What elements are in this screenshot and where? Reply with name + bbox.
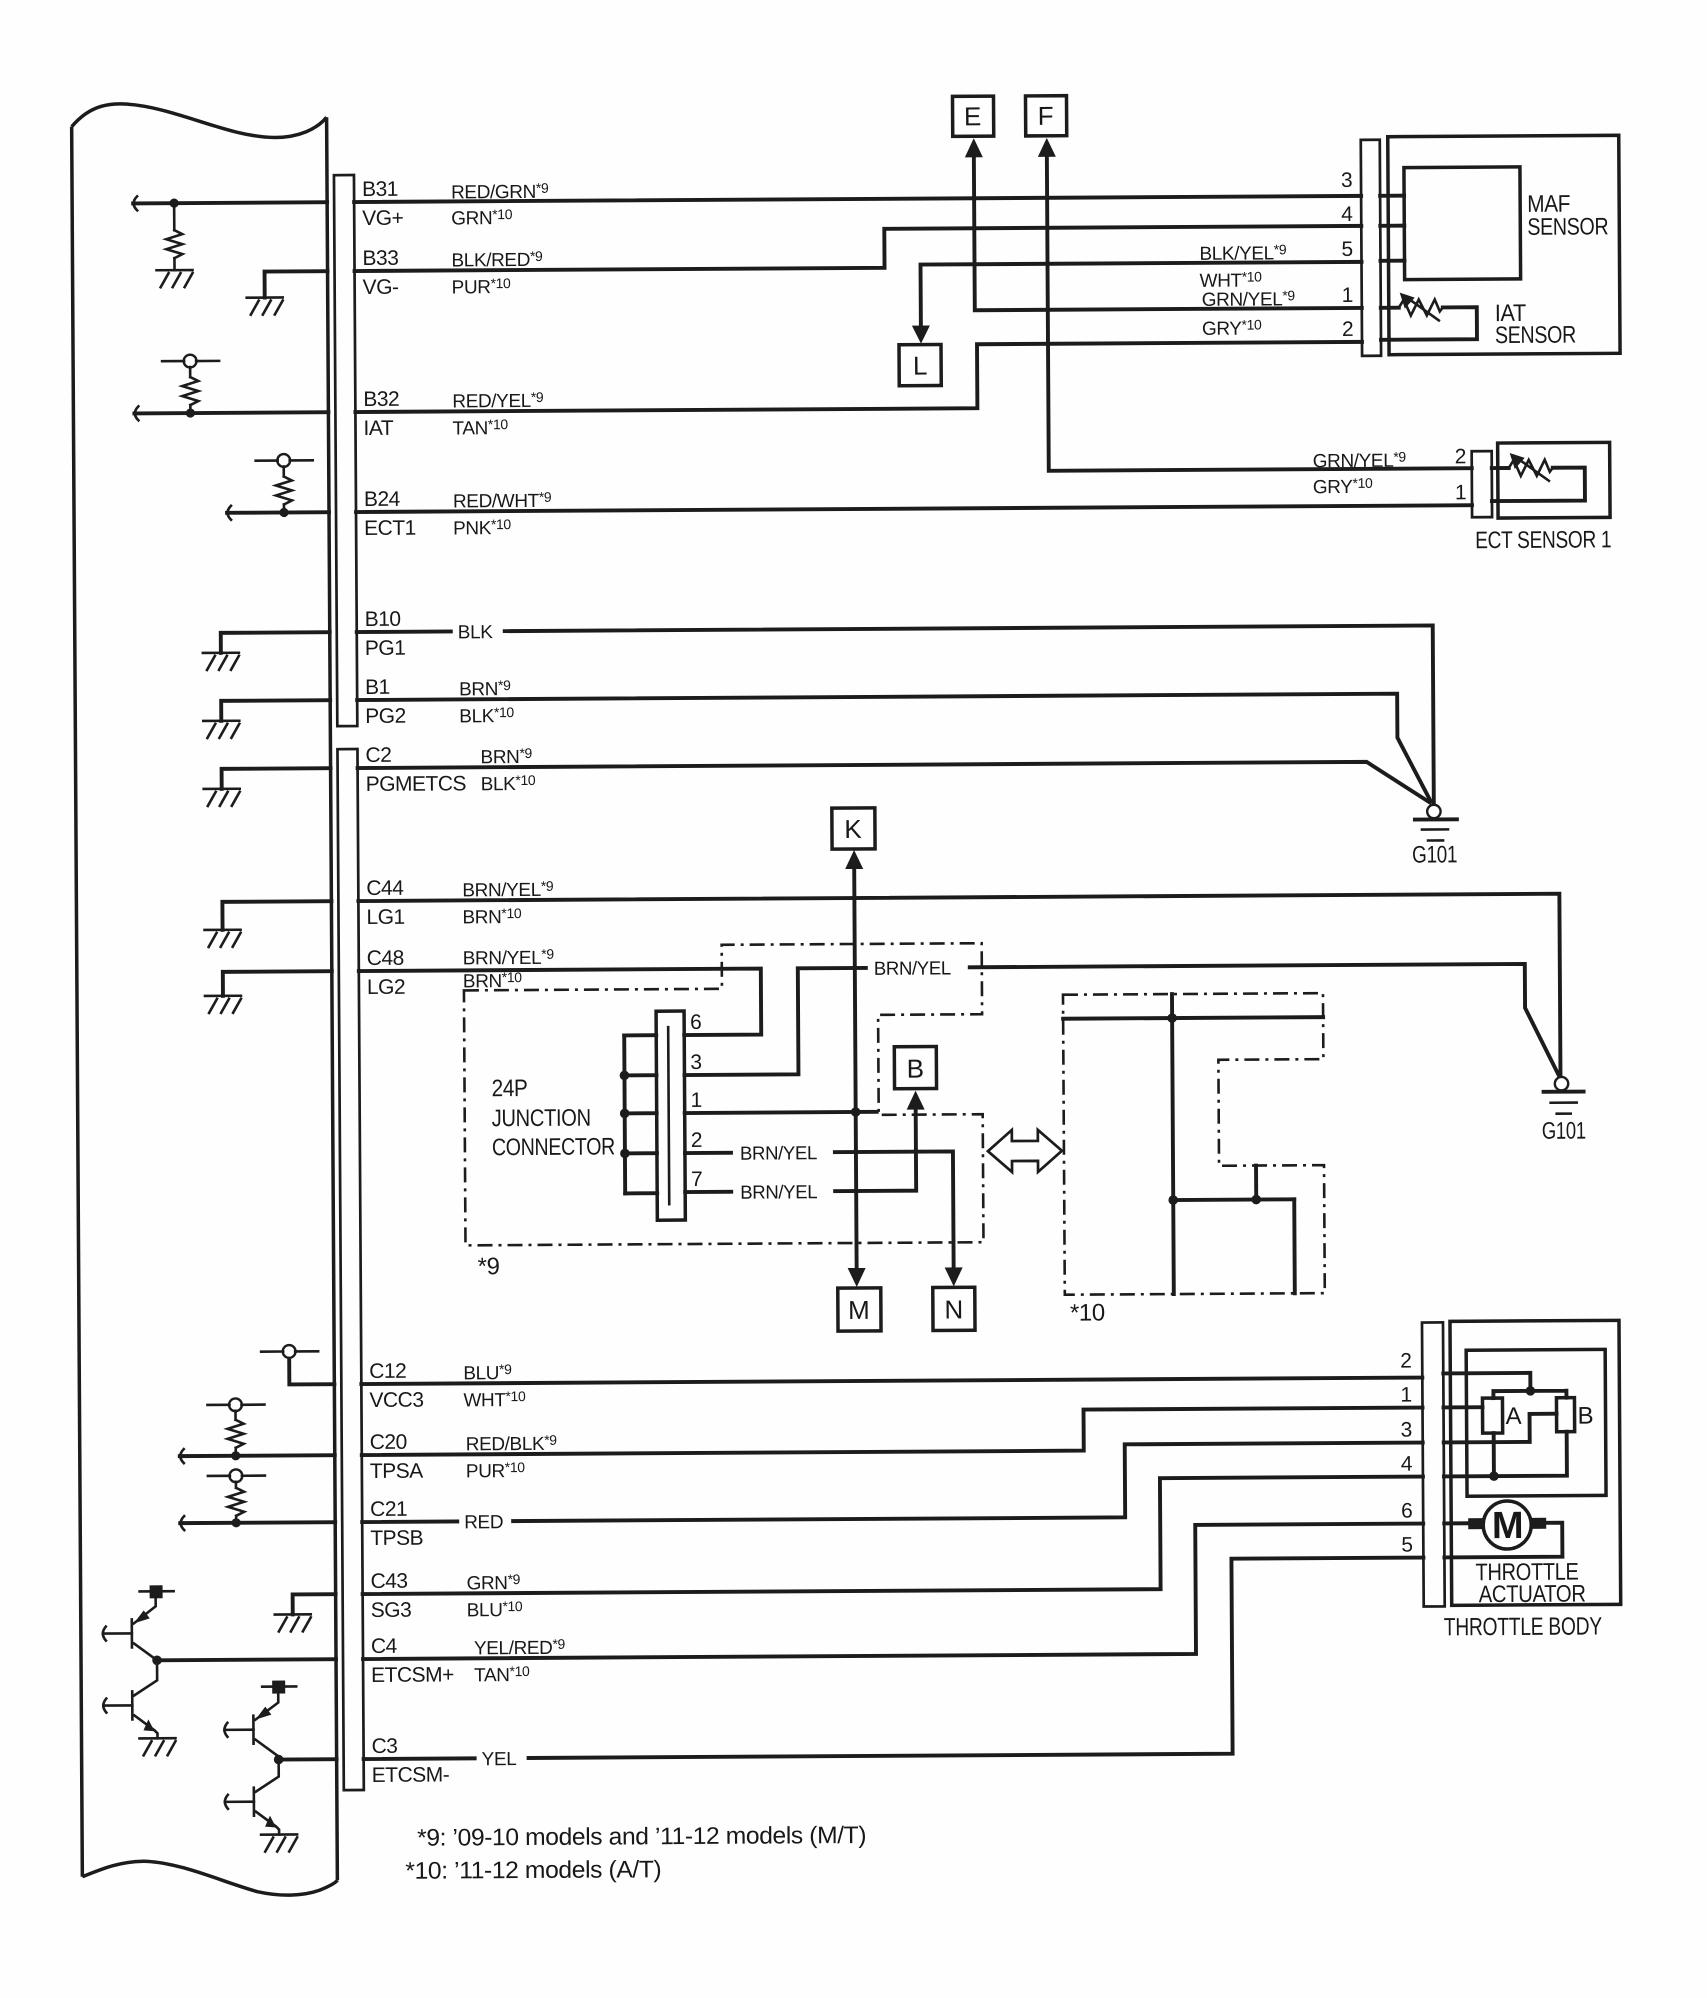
connector box K — [832, 808, 875, 849]
svg-text:GRY*10: GRY*10 — [1313, 475, 1373, 498]
svg-text:WHT*10: WHT*10 — [1200, 268, 1263, 291]
resistor R-VG+ pull-down — [166, 198, 182, 270]
ground (LG2) — [205, 996, 241, 1013]
label 24P JUNCTION CONNECTOR — [491, 1074, 615, 1161]
svg-text:BRN*9: BRN*9 — [480, 745, 532, 768]
wire C43 left (SG3) — [293, 1594, 336, 1614]
transistor Q4 (ETCSM- low side, NPN) — [225, 1760, 279, 1835]
svg-text:YEL/RED*9: YEL/RED*9 — [474, 1636, 566, 1660]
wire colour label BLK/RED*9 PUR*10 — [451, 248, 543, 299]
wire B33 BLK/RED to MAF pin 4 — [354, 226, 1361, 271]
arrowhead into B — [907, 1091, 925, 1110]
wire B31 RED/GRN to MAF pin 3 — [354, 196, 1361, 202]
svg-text:BLK/YEL*9: BLK/YEL*9 — [1199, 241, 1286, 265]
wire MAF pin 5 BLK/YEL to connector L — [921, 262, 1362, 330]
svg-text:TAN*10: TAN*10 — [474, 1663, 530, 1686]
svg-text:ETCSM+: ETCSM+ — [371, 1663, 454, 1687]
wire *10 box right drop — [1292, 1199, 1296, 1293]
wire label BRN/YEL (junction pin 7) — [733, 1179, 833, 1204]
pin label C48/LG2 — [367, 947, 406, 999]
svg-text:B33: B33 — [362, 247, 398, 270]
wire colour label RED/WHT*9 PNK*10 — [453, 489, 552, 540]
wire throttle pin 4 sensor ground — [1444, 1432, 1567, 1482]
wire C21 left (TPSB) — [180, 1515, 335, 1530]
svg-text:GRN/YEL*9: GRN/YEL*9 — [1313, 449, 1407, 473]
svg-text:IAT: IAT — [363, 417, 393, 440]
wire throttle pin 2 to sensor supply — [1443, 1373, 1566, 1399]
svg-text:G101: G101 — [1412, 841, 1457, 868]
wire *10 box stub from notch — [1254, 1166, 1258, 1200]
svg-text:LG2: LG2 — [367, 976, 405, 999]
wire colour label YEL/RED*9 TAN*10 — [474, 1636, 566, 1687]
svg-text:BRN*10: BRN*10 — [462, 905, 521, 928]
svg-text:SENSOR: SENSOR — [1495, 322, 1576, 349]
connector box M — [838, 1288, 881, 1331]
resistor A (TPS A) — [1482, 1398, 1502, 1433]
svg-text:B1: B1 — [365, 676, 390, 699]
svg-text:C2: C2 — [365, 744, 391, 767]
wire to connector M — [854, 1112, 859, 1268]
connector box L — [899, 344, 941, 385]
svg-text:BLU*9: BLU*9 — [463, 1361, 512, 1384]
wire B32 RED/YEL to MAF pin 2 — [355, 342, 1362, 412]
svg-text:ETCSM-: ETCSM- — [372, 1763, 450, 1786]
svg-text:B31: B31 — [362, 178, 398, 201]
throttle body housing — [1450, 1320, 1621, 1605]
transistor Q2 (ETCSM+ low side, NPN) — [103, 1660, 157, 1738]
pin label B31/VG+ — [362, 178, 404, 230]
MAF pin numbers — [1341, 169, 1354, 341]
svg-text:L: L — [913, 351, 928, 381]
arrowhead into K — [845, 850, 863, 869]
svg-text:C12: C12 — [369, 1360, 406, 1383]
ground (VG+ resistor) — [157, 270, 193, 287]
svg-text:ECT SENSOR 1: ECT SENSOR 1 — [1475, 526, 1611, 554]
svg-text:5: 5 — [1341, 238, 1352, 261]
label THROTTLE ACTUATOR — [1475, 1559, 1585, 1609]
pin label C12/VCC3 — [369, 1360, 423, 1412]
svg-text:PG1: PG1 — [365, 637, 406, 660]
wire colour label BRN*9 BLK*10 (C2) — [480, 745, 535, 795]
svg-text:BRN*10: BRN*10 — [463, 969, 522, 992]
svg-text:*10: ’11-12 models (A/T): *10: ’11-12 models (A/T) — [405, 1856, 661, 1885]
svg-text:*9: *9 — [478, 1253, 500, 1280]
wire *10 box lower rail — [1168, 1195, 1294, 1205]
svg-text:3: 3 — [690, 1051, 701, 1074]
wire C12 BLU to throttle pin 2 — [361, 1378, 1422, 1384]
note *9 models — [417, 1822, 866, 1852]
svg-text:4: 4 — [1401, 1453, 1413, 1476]
svg-text:2: 2 — [1400, 1350, 1411, 1373]
wire *10 box main vertical — [1172, 994, 1174, 1294]
svg-text:C3: C3 — [371, 1735, 397, 1758]
wire B32 left (IAT internal) — [134, 405, 328, 420]
ground (SG3) — [275, 1614, 311, 1631]
svg-text:BLU*10: BLU*10 — [467, 1598, 523, 1621]
svg-text:M: M — [1492, 1505, 1523, 1547]
svg-text:PUR*10: PUR*10 — [466, 1459, 525, 1482]
svg-text:PG2: PG2 — [365, 705, 406, 728]
wire colour label YEL — [477, 1746, 527, 1770]
ground (PGMETCS) — [204, 789, 240, 806]
pin label B24/ECT1 — [364, 488, 416, 540]
svg-text:1: 1 — [1455, 481, 1466, 504]
svg-text:PGMETCS: PGMETCS — [366, 772, 467, 796]
resistor pull-up (ECT1) — [256, 454, 313, 517]
svg-text:RED/WHT*9: RED/WHT*9 — [453, 489, 552, 513]
connector box F — [1025, 96, 1066, 136]
svg-text:7: 7 — [691, 1168, 702, 1191]
ground (PG2) — [203, 721, 239, 738]
motor M (throttle actuator) — [1444, 1501, 1562, 1558]
svg-text:G101: G101 — [1542, 1118, 1586, 1145]
wire C48 BRN/YEL to junction pin 6 — [359, 969, 761, 1037]
equivalence double arrow — [988, 1130, 1062, 1172]
svg-text:TAN*10: TAN*10 — [452, 416, 508, 439]
wire ECT pin 2 GRN/YEL to connector F — [1047, 154, 1472, 471]
svg-text:SG3: SG3 — [371, 1599, 412, 1622]
wire colour label BRN/YEL*9 BRN*10 (C44) — [462, 878, 554, 929]
svg-text:1: 1 — [1342, 284, 1353, 307]
svg-text:SENSOR: SENSOR — [1527, 213, 1608, 240]
ECT sensor 1 housing — [1498, 442, 1610, 518]
label *10 (harness box) — [1070, 1299, 1105, 1326]
svg-text:BLK*10: BLK*10 — [459, 704, 514, 727]
ECM connector strip C (pins C44-C3) — [337, 749, 363, 1790]
resistor pull-up (IAT) — [162, 354, 219, 417]
svg-text:BLK*10: BLK*10 — [481, 772, 536, 795]
wire B31 left (VG+ internal) — [133, 195, 327, 210]
MAF sensor connector strip — [1361, 140, 1381, 356]
wire colour label RED/YEL*9 TAN*10 — [452, 389, 544, 440]
label MAF SENSOR — [1527, 190, 1608, 240]
arrowhead into N — [945, 1267, 963, 1286]
svg-text:PUR*10: PUR*10 — [452, 275, 511, 298]
wire C3 left (ETCSM- node) — [274, 1754, 337, 1764]
junction pin numbers — [690, 1011, 702, 1191]
svg-text:BRN/YEL: BRN/YEL — [740, 1182, 817, 1203]
svg-text:BRN/YEL*9: BRN/YEL*9 — [462, 878, 554, 902]
arrowhead into F — [1038, 138, 1056, 157]
pin label C4/ETCSM+ — [371, 1634, 454, 1687]
resistor pull-up (TPSB) — [208, 1469, 265, 1527]
svg-text:THROTTLE BODY: THROTTLE BODY — [1444, 1612, 1603, 1641]
pin label C3/ETCSM- — [371, 1734, 449, 1786]
wire C4 YEL/RED to throttle pin 6 — [362, 1524, 1424, 1659]
wire junction pin 1 — [685, 1107, 877, 1118]
IAT sensor element (thermistor loop) — [1381, 292, 1477, 340]
svg-text:BRN/YEL: BRN/YEL — [874, 958, 951, 979]
dashed harness box *10 — [1063, 993, 1325, 1295]
svg-text:A: A — [1505, 1403, 1521, 1430]
wire colour label BLK — [453, 619, 503, 643]
wire C12 left (VCC3) with source circle — [261, 1345, 334, 1385]
wire C2 left (PGMETCS) — [222, 768, 331, 789]
resistor B (TPS B) — [1556, 1398, 1574, 1432]
svg-text:RED/GRN*9: RED/GRN*9 — [451, 180, 549, 204]
svg-text:2: 2 — [1342, 318, 1353, 341]
wire colour label BLK/YEL*9 WHT*10 (MAF pin 5) — [1199, 241, 1287, 292]
svg-text:BRN/YEL*9: BRN/YEL*9 — [463, 946, 555, 970]
svg-text:C43: C43 — [370, 1570, 407, 1593]
svg-text:B32: B32 — [363, 388, 399, 411]
svg-text:C44: C44 — [366, 877, 404, 900]
svg-text:VG+: VG+ — [362, 207, 403, 230]
ground (PG1) — [203, 653, 239, 670]
wire B33 left (VG-) — [265, 271, 328, 297]
ground (LG1) — [205, 930, 241, 947]
svg-text:ECT1: ECT1 — [364, 517, 416, 540]
pin label C20/TPSA — [370, 1431, 424, 1483]
svg-text:GRY*10: GRY*10 — [1202, 317, 1262, 340]
svg-text:BLK: BLK — [458, 622, 494, 643]
svg-text:4: 4 — [1341, 203, 1353, 226]
wire C43 GRN to throttle pin 4 — [362, 1477, 1424, 1594]
svg-text:BRN*9: BRN*9 — [459, 677, 511, 700]
svg-text:*9: ’09-10 models and ’11-12 m: *9: ’09-10 models and ’11-12 models (M/T… — [417, 1822, 866, 1852]
pin label C44/LG1 — [366, 877, 405, 929]
svg-text:3: 3 — [1401, 1419, 1412, 1442]
svg-text:CONNECTOR: CONNECTOR — [492, 1133, 615, 1161]
ECT pin numbers — [1455, 445, 1467, 504]
svg-text:2: 2 — [1455, 445, 1466, 468]
wire colour label GRN/YEL*9 GRY*10 (ECT pin 2) — [1313, 449, 1407, 499]
svg-text:3: 3 — [1341, 169, 1352, 192]
ECT sensor 1 thermistor loop — [1492, 453, 1585, 502]
svg-text:GRN*10: GRN*10 — [451, 206, 513, 229]
svg-text:RED/YEL*9: RED/YEL*9 — [452, 389, 544, 413]
connector box E — [952, 96, 993, 136]
svg-text:JUNCTION: JUNCTION — [492, 1105, 591, 1133]
pin label B1/PG2 — [365, 676, 406, 728]
svg-text:RED: RED — [464, 1512, 503, 1533]
wire colour label BLU*9 WHT*10 — [463, 1361, 526, 1411]
svg-text:VG-: VG- — [363, 276, 399, 299]
wire to connector K — [854, 869, 855, 1112]
throttle position sensor box — [1466, 1349, 1606, 1496]
wire C44 BRN/YEL to G101 — [358, 894, 1560, 1084]
svg-text:2: 2 — [691, 1129, 702, 1152]
wire colour label RED/GRN*9 GRN*10 — [451, 180, 549, 230]
pin label B32/IAT — [363, 388, 399, 440]
label resistor A — [1505, 1403, 1521, 1430]
svg-text:C4: C4 — [371, 1635, 398, 1658]
connector box N — [933, 1287, 975, 1330]
wire colour label BRN/YEL*9 BRN*10 (C48) — [463, 946, 555, 993]
dashed harness box *9 — [464, 943, 984, 1245]
pin label C2/PGMETCS — [365, 743, 466, 796]
svg-text:E: E — [964, 101, 982, 131]
svg-text:ACTUATOR: ACTUATOR — [1479, 1581, 1586, 1609]
wire B1 left (PG2) — [221, 700, 330, 721]
wire C20 RED/BLK to throttle pin 1 — [362, 1408, 1423, 1455]
svg-text:F: F — [1038, 101, 1054, 131]
wire C2 BRN to G101 — [358, 761, 1430, 809]
svg-text:B: B — [907, 1054, 925, 1084]
wire colour label RED/BLK*9 PUR*10 — [466, 1432, 558, 1483]
wire throttle pin 1 to resistor A — [1444, 1405, 1483, 1409]
label *9 (harness box) — [478, 1253, 500, 1280]
ground (ETCSM+ driver) — [140, 1738, 176, 1755]
connector box B — [894, 1047, 936, 1089]
arrowhead into E — [965, 138, 983, 157]
wire label BRN/YEL (LG2 to G101) — [868, 955, 968, 980]
note *10 models — [405, 1856, 661, 1885]
throttle pin numbers — [1400, 1350, 1413, 1557]
svg-text:B24: B24 — [364, 488, 401, 511]
wire colour label RED — [459, 1509, 511, 1533]
wire C44 left (LG1) — [222, 901, 331, 930]
svg-text:PNK*10: PNK*10 — [453, 516, 511, 539]
svg-text:N: N — [944, 1294, 963, 1324]
wire B10 BLK to G101 — [357, 625, 1434, 809]
label G101 (LG ground) — [1542, 1118, 1586, 1145]
svg-text:M: M — [848, 1295, 870, 1325]
svg-text:YEL: YEL — [482, 1749, 517, 1770]
wire MAF pin 1 GRN/YEL to connector E — [974, 155, 1362, 310]
wire B10 left (PG1) — [221, 632, 330, 653]
svg-text:B10: B10 — [365, 608, 401, 631]
svg-text:BLK/RED*9: BLK/RED*9 — [451, 248, 543, 272]
throttle body connector strip — [1422, 1322, 1445, 1606]
ECT sensor 1 connector strip — [1472, 451, 1492, 517]
ground G101 (LG) — [1543, 1077, 1583, 1114]
pin label C43/SG3 — [370, 1570, 411, 1622]
ECM connector strip B (pins B31-C2) — [334, 175, 357, 726]
wire throttle pin 3 to resistor B wiper — [1444, 1414, 1557, 1443]
svg-text:LG1: LG1 — [366, 906, 404, 929]
svg-text:5: 5 — [1401, 1534, 1412, 1557]
resistor pull-up (TPSA) — [207, 1398, 264, 1460]
wire B1 BRN to G101 — [357, 693, 1431, 808]
label resistor B — [1577, 1402, 1593, 1429]
transistor Q3 (ETCSM- high side, PNP) — [224, 1680, 296, 1756]
wire BRN/YEL junction pin 3 to G101 — [684, 964, 1559, 1080]
MAF sensor housing — [1388, 135, 1620, 354]
24P junction connector body — [656, 1011, 685, 1220]
svg-text:C20: C20 — [370, 1431, 407, 1454]
wire colour label GRN*9 BLU*10 — [466, 1571, 523, 1621]
svg-text:BRN/YEL: BRN/YEL — [740, 1143, 817, 1164]
svg-text:6: 6 — [690, 1011, 701, 1034]
pin label B10/PG1 — [365, 608, 406, 660]
svg-text:B: B — [1577, 1402, 1593, 1429]
wire junction pin 2 BRN/YEL to connector N — [685, 1151, 954, 1269]
junction connector common bus — [619, 1035, 657, 1193]
label ECT SENSOR 1 — [1475, 526, 1611, 554]
wire *10 box upper rail — [1063, 1012, 1323, 1023]
wire colour label GRN/YEL*9 GRY*10 (MAF pin 1) — [1202, 287, 1296, 340]
svg-text:TPSA: TPSA — [370, 1460, 423, 1483]
label THROTTLE BODY — [1444, 1612, 1603, 1641]
MAF sensor element box — [1380, 167, 1521, 280]
ECM housing outline — [72, 103, 338, 1897]
wire B24 left (ECT1 internal) — [227, 505, 329, 520]
ground (ETCSM- driver) — [261, 1834, 297, 1851]
arrowhead into M — [848, 1268, 866, 1287]
svg-text:WHT*10: WHT*10 — [463, 1388, 526, 1411]
svg-text:GRN*9: GRN*9 — [466, 1571, 520, 1594]
wire label BRN/YEL (junction pin 2) — [733, 1140, 833, 1165]
svg-text:TPSB: TPSB — [370, 1527, 423, 1550]
pin label B33/VG- — [362, 247, 399, 299]
wire C21 RED to throttle pin 3 — [362, 1443, 1423, 1522]
svg-text:GRN/YEL*9: GRN/YEL*9 — [1202, 287, 1296, 311]
label G101 (PG ground) — [1412, 841, 1457, 868]
svg-text:VCC3: VCC3 — [369, 1389, 423, 1412]
wire C3 YEL to throttle pin 5 — [362, 1558, 1424, 1759]
transistor Q1 (ETCSM+ high side, PNP) — [103, 1585, 174, 1660]
wire C48 left (LG2) — [223, 971, 332, 996]
label IAT SENSOR — [1495, 300, 1576, 349]
pin label C21/TPSB — [370, 1498, 423, 1550]
wire junction pin 7 BRN/YEL to connector B — [685, 1110, 916, 1192]
wire colour label BRN*9 BLK*10 — [459, 677, 514, 727]
svg-text:1: 1 — [691, 1089, 702, 1112]
svg-text:K: K — [844, 814, 862, 844]
svg-text:C21: C21 — [370, 1498, 407, 1521]
arrowhead into L — [912, 326, 930, 344]
ground (VG-) — [247, 297, 283, 314]
svg-text:RED/BLK*9: RED/BLK*9 — [466, 1432, 558, 1456]
svg-text:*10: *10 — [1070, 1299, 1105, 1326]
wire C4 left (ETCSM+ node) — [152, 1654, 336, 1665]
svg-text:6: 6 — [1401, 1500, 1412, 1523]
ground G101 (PG) — [1415, 805, 1457, 841]
wire C20 left (TPSA) — [180, 1448, 335, 1463]
svg-text:24P: 24P — [491, 1075, 527, 1102]
wire B24 RED/WHT to ECT pin 1 — [356, 505, 1472, 512]
svg-text:C48: C48 — [367, 947, 404, 970]
svg-text:1: 1 — [1400, 1384, 1411, 1407]
